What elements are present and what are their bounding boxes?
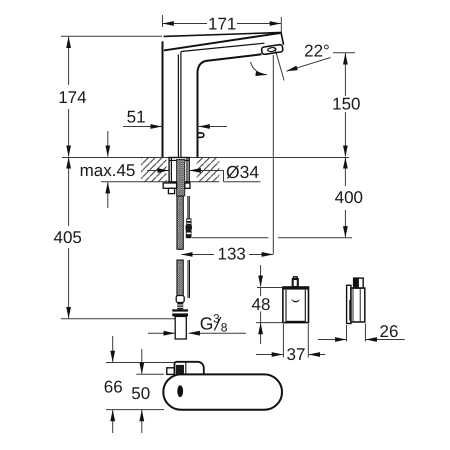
control box side: left panel — [347, 285, 351, 323]
countertop hatch left band — [141, 158, 167, 182]
faucet body — [163, 33, 284, 158]
electrical cable lower — [188, 260, 190, 298]
dimension 150 — [344, 53, 346, 96]
control box front body — [283, 287, 309, 323]
svg-text:133: 133 — [218, 244, 246, 263]
bottom view: faucet plan (stadium) — [163, 374, 282, 409]
G3/8 nipple — [175, 316, 186, 339]
side box dark bar — [349, 300, 351, 321]
svg-text:22°: 22° — [304, 42, 330, 61]
svg-text:171: 171 — [208, 14, 236, 33]
svg-text:51: 51 — [127, 107, 146, 126]
bottom view: mounting tab left lug — [167, 368, 175, 375]
angle arc arrow — [251, 62, 267, 75]
svg-text:50: 50 — [131, 384, 150, 403]
dimension max.45 — [107, 131, 109, 157]
dimension diameter 34 leader — [147, 169, 169, 171]
mounting nut — [163, 183, 176, 188]
countertop hatch right band — [197, 158, 220, 182]
dimension 133 — [182, 253, 215, 255]
svg-text:3: 3 — [213, 311, 220, 325]
svg-text:G: G — [200, 314, 214, 334]
bottom view: mounting tab — [175, 362, 204, 375]
dimension 50 — [141, 349, 143, 374]
control box front: nipple — [294, 277, 298, 279]
svg-text:150: 150 — [332, 95, 360, 114]
control box side: nipple — [354, 278, 364, 288]
braided supply hose lower — [177, 260, 183, 296]
svg-text:66: 66 — [104, 377, 123, 396]
svg-text:37: 37 — [287, 345, 306, 364]
svg-text:400: 400 — [335, 188, 363, 207]
temperature lever bump — [198, 133, 204, 137]
braided supply hose upper — [177, 196, 183, 249]
countertop bottom line — [101, 181, 260, 183]
ferrule band — [177, 303, 183, 310]
cable connector — [186, 218, 191, 225]
threaded shank through counter — [169, 158, 189, 197]
svg-text:max.45: max.45 — [80, 161, 136, 180]
countertop top surface line — [62, 156, 349, 158]
grohe logo mark — [291, 299, 300, 303]
svg-text:26: 26 — [380, 322, 399, 341]
dimension 400 — [344, 158, 346, 187]
dimension 51 — [123, 126, 162, 128]
sensor window oval — [177, 385, 183, 397]
extension line hose bottom (405) — [61, 318, 175, 320]
dimension 171 — [161, 15, 163, 27]
spout axis line (22deg) — [275, 48, 285, 81]
hose ferrule — [176, 296, 184, 303]
tab dark clip — [176, 365, 184, 375]
extension line spout outlet height (150) — [333, 52, 355, 54]
extension line 400 bottom — [192, 237, 352, 239]
dimension 37 — [282, 324, 284, 358]
extension line faucet top height — [61, 35, 162, 37]
spout end piece (aerator) — [261, 44, 283, 54]
dimension 66 — [112, 336, 114, 362]
hex nut — [172, 309, 188, 316]
electrical cable upper — [188, 196, 189, 218]
svg-text:8: 8 — [221, 320, 228, 334]
svg-text:405: 405 — [54, 228, 82, 247]
svg-text:48: 48 — [252, 295, 271, 314]
water stream centerline — [272, 55, 274, 255]
dimension 48 — [257, 286, 283, 288]
control box side: body — [351, 288, 365, 322]
bottom view: extension lines 66/50 — [106, 361, 175, 363]
dimension 26 — [346, 325, 348, 342]
dimension G3/8 — [148, 332, 175, 334]
dimension 174 — [68, 37, 70, 85]
dimension 405 — [68, 158, 70, 227]
svg-text:Ø34: Ø34 — [226, 162, 259, 182]
svg-text:174: 174 — [58, 88, 86, 107]
